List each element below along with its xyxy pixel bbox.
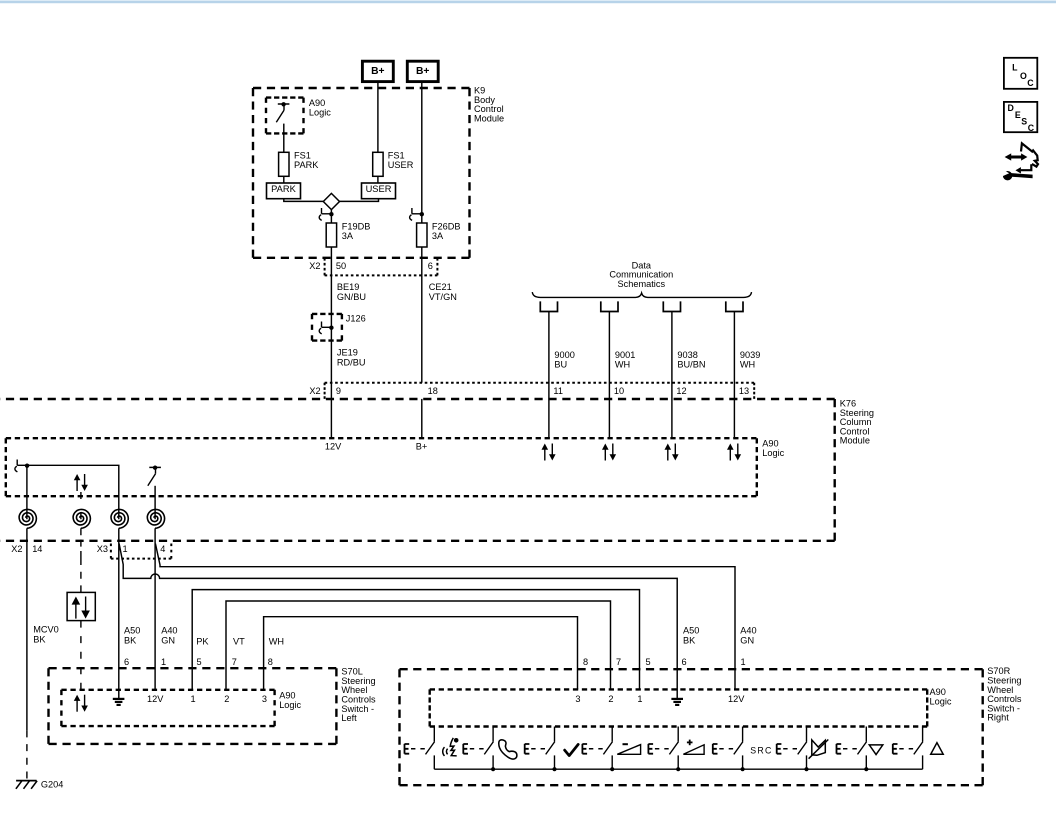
module S70R Steering Wheel Controls Switch - Right box bbox=[400, 669, 983, 785]
SIR coil (clockspring) on MCV0 wire bbox=[19, 509, 36, 528]
branch wire A40 GN to S70R 12V pin 1 bbox=[155, 544, 735, 690]
label S70L Steering Wheel Controls Switch - Left bbox=[341, 667, 376, 724]
wire PARK to merge diamond bbox=[284, 199, 324, 202]
svg-text:G204: G204 bbox=[41, 780, 63, 790]
wire F19DB to connector X2 pin 50 bbox=[330, 247, 332, 275]
SIR coil (clockspring) on A50 wire bbox=[111, 509, 128, 528]
svg-text:B+: B+ bbox=[416, 442, 428, 452]
svg-text:1: 1 bbox=[741, 657, 746, 667]
svg-text:JE19: JE19 bbox=[337, 347, 358, 357]
svg-text:Left: Left bbox=[341, 713, 357, 723]
bus junction bbox=[676, 767, 680, 771]
svg-text:10: 10 bbox=[614, 386, 624, 396]
bidirectional arrows in MCV0 box bbox=[72, 597, 90, 619]
label MCV0 BK bbox=[33, 625, 59, 645]
svg-text:S: S bbox=[1021, 117, 1027, 127]
svg-text:GN: GN bbox=[740, 636, 754, 646]
svg-text:6: 6 bbox=[428, 261, 433, 271]
svg-text:8: 8 bbox=[583, 657, 588, 667]
wire BE19 GN/BU X2-50 to J126 bbox=[330, 275, 332, 314]
volume up switch bbox=[648, 727, 678, 770]
SIR coil (clockspring) on link wire bbox=[73, 509, 90, 528]
svg-text:3A: 3A bbox=[432, 231, 444, 241]
connector X2 of K76 (pins 9, 18, 11, 10, 12, 13) bbox=[325, 383, 755, 399]
svg-text:PARK: PARK bbox=[271, 184, 296, 194]
power node B+ (right) bbox=[407, 61, 438, 81]
svg-text:C: C bbox=[1027, 78, 1034, 88]
wire USER to merge diamond bbox=[340, 199, 379, 202]
label A90 Logic (S70R) bbox=[930, 687, 952, 707]
svg-text:50: 50 bbox=[336, 261, 346, 271]
bidirectional data arrows (9000) bbox=[542, 444, 556, 461]
wire A40 GN X3-4 down to S70L 12V pin 1 bbox=[154, 541, 156, 690]
merge diamond (voltage select) bbox=[323, 193, 339, 209]
label A40 GN (left) bbox=[161, 626, 177, 646]
svg-text:BU/BN: BU/BN bbox=[677, 360, 705, 370]
fuse FS1 PARK bbox=[279, 152, 289, 176]
svg-text:A40: A40 bbox=[740, 626, 756, 636]
svg-text:12: 12 bbox=[676, 386, 686, 396]
bidirectional data arrows (9039) bbox=[727, 444, 741, 461]
ground symbol in S70L (pin 6) bbox=[113, 699, 125, 705]
label 9039 WH bbox=[740, 350, 760, 370]
SIR coil (clockspring) on A40 wire bbox=[147, 509, 164, 528]
module K76 Steering Column Control Module box bbox=[0, 399, 835, 541]
icon volume down (ramp with minus) bbox=[617, 744, 640, 754]
legend service procedure icon (arrows and wrench) bbox=[999, 143, 1038, 180]
wire VT S70L pin 7 to S70R pin 7 bbox=[226, 601, 611, 690]
svg-text:Logic: Logic bbox=[930, 697, 952, 707]
svg-text:B+: B+ bbox=[371, 66, 384, 77]
label A40 GN (right) bbox=[740, 626, 756, 646]
MCV0 serial data logic box bbox=[67, 592, 95, 620]
off-page connector to data schematics (9039) bbox=[726, 301, 743, 311]
svg-text:X2: X2 bbox=[11, 544, 22, 554]
bus junction bbox=[804, 767, 808, 771]
label FS1 PARK bbox=[294, 150, 319, 170]
svg-text:7: 7 bbox=[616, 657, 621, 667]
bus junction bbox=[864, 767, 868, 771]
wire WH S70L pin 8 to S70R pin 8 bbox=[264, 617, 578, 690]
switch A90 logic (park lamp control) bbox=[276, 102, 289, 122]
label CE21 VT/GN bbox=[429, 282, 457, 302]
wire X2-18 to A90 B+ bbox=[421, 399, 423, 438]
label FS1 USER bbox=[388, 150, 414, 170]
connector X3 box (pins 1, 4) bbox=[111, 544, 171, 559]
svg-text:A40: A40 bbox=[161, 626, 177, 636]
switch A90 (12V supply control) bbox=[148, 466, 161, 486]
ground symbol in S70R (pin 6) bbox=[671, 699, 683, 705]
label A50 BK (right) bbox=[683, 626, 699, 646]
svg-text:5: 5 bbox=[646, 657, 651, 667]
wire A40 below coil bbox=[154, 528, 156, 541]
wire CE21 VT/GN X2-6 to X2-18 bbox=[421, 275, 423, 382]
wire FS1 USER to USER output bbox=[377, 176, 379, 183]
terminal clip A90 ground source bbox=[15, 460, 29, 472]
svg-text:2: 2 bbox=[224, 694, 229, 704]
label Data Communication Schematics bbox=[609, 260, 673, 288]
power node B+ (left) bbox=[362, 61, 393, 81]
svg-text:PK: PK bbox=[196, 636, 209, 646]
off-page connector to data schematics (9001) bbox=[601, 301, 618, 311]
svg-text:1: 1 bbox=[161, 657, 166, 667]
wire switch to X3-4 bbox=[154, 486, 156, 519]
wire through J126 bbox=[330, 314, 332, 341]
svg-text:9000: 9000 bbox=[554, 350, 574, 360]
svg-text:5: 5 bbox=[197, 657, 202, 667]
legend DESC box bbox=[1004, 102, 1037, 133]
svg-text:11: 11 bbox=[553, 386, 563, 396]
svg-text:1: 1 bbox=[191, 694, 196, 704]
wire 9039 WH to K76 X2-13 bbox=[733, 312, 735, 439]
svg-text:F26DB: F26DB bbox=[432, 221, 461, 231]
svg-text:Schematics: Schematics bbox=[618, 279, 666, 289]
svg-text:VT/GN: VT/GN bbox=[429, 292, 457, 302]
wire FS1 PARK to PARK output bbox=[283, 176, 285, 183]
voice recognition switch bbox=[405, 727, 435, 770]
dashed link wire to MCV0 box bbox=[80, 558, 82, 592]
icon seek up (triangle up) bbox=[931, 743, 944, 755]
label A90 Logic (K9) bbox=[309, 98, 331, 118]
svg-text:FS1: FS1 bbox=[294, 150, 311, 160]
off-page connector to data schematics (9038) bbox=[663, 301, 680, 311]
wire JE19 RD/BU J126 to X2-9 bbox=[330, 341, 332, 399]
fuse F26DB 3A bbox=[417, 223, 427, 247]
svg-text:7: 7 bbox=[232, 657, 237, 667]
icon phone handset bbox=[499, 740, 517, 759]
svg-text:USER: USER bbox=[388, 160, 414, 170]
mute switch bbox=[777, 727, 807, 770]
fuse F19DB 3A bbox=[326, 223, 336, 247]
link wire below coil bbox=[80, 528, 82, 558]
bus junction bbox=[741, 767, 745, 771]
svg-text:A90: A90 bbox=[762, 438, 778, 448]
connector X2 of K9 (pins 50, 6) bbox=[325, 258, 438, 275]
svg-text:GN/BU: GN/BU bbox=[337, 292, 366, 302]
wire 9001 WH to K76 X2-10 bbox=[608, 312, 610, 439]
bus junction bbox=[491, 767, 495, 771]
wire X2-9 to A90 12V bbox=[330, 399, 332, 438]
source SRC switch bbox=[713, 727, 743, 770]
wire MCV0 BK from junction down (X2-14) bbox=[26, 465, 28, 519]
svg-text:14: 14 bbox=[32, 544, 42, 554]
svg-text:8: 8 bbox=[268, 657, 273, 667]
svg-text:BK: BK bbox=[124, 636, 137, 646]
svg-text:E: E bbox=[1015, 110, 1021, 120]
volume down switch bbox=[582, 727, 612, 770]
svg-text:13: 13 bbox=[739, 386, 749, 396]
icon mute (speaker crossed) bbox=[809, 740, 829, 759]
svg-text:RD/BU: RD/BU bbox=[337, 357, 366, 367]
legend LOC box bbox=[1004, 58, 1037, 89]
bidirectional arrows (serial data link) bbox=[74, 474, 88, 491]
bus junction bbox=[552, 767, 556, 771]
svg-text:A90: A90 bbox=[279, 691, 295, 701]
label BE19 GN/BU bbox=[337, 282, 366, 302]
svg-text:A90: A90 bbox=[930, 687, 946, 697]
svg-text:3A: 3A bbox=[342, 231, 354, 241]
svg-text:SRC: SRC bbox=[750, 746, 772, 756]
svg-text:WH: WH bbox=[615, 360, 630, 370]
branch wire A50 BK to S70R ground pin 6 (with crossover hop) bbox=[119, 544, 677, 699]
svg-text:D: D bbox=[1008, 103, 1014, 113]
accept/check switch bbox=[525, 727, 555, 770]
svg-text:A50: A50 bbox=[124, 626, 140, 636]
svg-text:X2: X2 bbox=[309, 261, 320, 271]
svg-text:A90: A90 bbox=[309, 98, 325, 108]
svg-text:3: 3 bbox=[575, 694, 580, 704]
label JE19 RD/BU bbox=[337, 347, 366, 367]
label K9 Body Control Module bbox=[474, 86, 504, 124]
svg-text:PARK: PARK bbox=[294, 160, 319, 170]
label A90 Logic (K76) bbox=[762, 438, 784, 458]
bus junction bbox=[610, 767, 614, 771]
wire F26DB to connector X2 pin 6 bbox=[421, 247, 423, 275]
svg-text:CE21: CE21 bbox=[429, 282, 452, 292]
A90 Logic box in S70R bbox=[430, 689, 928, 726]
svg-text:J126: J126 bbox=[346, 313, 366, 323]
svg-text:BU: BU bbox=[554, 360, 567, 370]
wire B+ (right box) down to F26DB bbox=[421, 82, 423, 223]
A90 Logic box in K9 bbox=[266, 98, 304, 134]
fuse FS1 USER bbox=[373, 152, 383, 176]
svg-text:9039: 9039 bbox=[740, 350, 760, 360]
svg-text:FS1: FS1 bbox=[388, 150, 405, 160]
svg-text:GN: GN bbox=[161, 636, 175, 646]
svg-text:12V: 12V bbox=[728, 694, 745, 704]
icon voice recognition (speaking head) bbox=[443, 738, 459, 756]
svg-text:X2: X2 bbox=[309, 386, 320, 396]
phone switch bbox=[463, 727, 493, 770]
svg-text:Right: Right bbox=[987, 713, 1009, 723]
switch bus wire in S70R bbox=[434, 768, 922, 770]
label K76 Steering Column Control Module bbox=[840, 399, 874, 446]
label S70R Steering Wheel Controls Switch - Right bbox=[987, 666, 1022, 723]
dashed link wire to MCV0 logic box bbox=[80, 492, 82, 519]
terminal clip at F26DB bbox=[410, 208, 424, 220]
chassis ground G204 bbox=[16, 781, 37, 789]
svg-text:MCV0: MCV0 bbox=[33, 625, 59, 635]
svg-text:X3: X3 bbox=[97, 544, 108, 554]
label 9038 BU/BN bbox=[677, 350, 705, 370]
svg-text:9: 9 bbox=[336, 386, 341, 396]
svg-text:L: L bbox=[1012, 62, 1018, 72]
wire A50 below coil bbox=[118, 528, 120, 541]
seek up switch bbox=[893, 727, 923, 770]
output terminal USER bbox=[362, 183, 396, 199]
label A90 Logic (S70L) bbox=[279, 691, 301, 711]
wire A50 BK X3-1 down to S70L ground pin 6 bbox=[118, 541, 120, 699]
svg-text:2: 2 bbox=[608, 694, 613, 704]
svg-text:F19DB: F19DB bbox=[342, 221, 371, 231]
label A50 BK (left) bbox=[124, 626, 140, 646]
module S70L Steering Wheel Controls Switch - Left box bbox=[49, 668, 337, 744]
wire ground junction to X3-1 branch bbox=[27, 465, 119, 519]
svg-text:C: C bbox=[1028, 123, 1035, 133]
svg-text:Logic: Logic bbox=[279, 700, 301, 710]
wire MCV0 below coil bbox=[26, 528, 28, 541]
svg-text:Module: Module bbox=[474, 113, 504, 123]
icon accept (checkmark) bbox=[565, 744, 579, 755]
seek down switch bbox=[837, 727, 867, 770]
svg-text:VT: VT bbox=[233, 636, 245, 646]
svg-text:6: 6 bbox=[124, 657, 129, 667]
terminal clip at F19DB bbox=[319, 208, 333, 220]
svg-text:USER: USER bbox=[366, 184, 392, 194]
svg-text:Module: Module bbox=[840, 436, 870, 446]
svg-text:18: 18 bbox=[428, 386, 438, 396]
svg-text:A50: A50 bbox=[683, 626, 699, 636]
bidirectional data arrows (9038) bbox=[665, 444, 679, 461]
svg-text:1: 1 bbox=[637, 694, 642, 704]
bidirectional arrows in S70L A90 bbox=[74, 695, 88, 712]
label F26DB 3A bbox=[432, 221, 461, 241]
A90 Logic box in S70L bbox=[61, 690, 274, 726]
wire X2-14 (MCV0 BK) down bbox=[26, 541, 28, 730]
svg-text:12V: 12V bbox=[325, 442, 342, 452]
off-page connector to data schematics (9000) bbox=[540, 301, 557, 311]
output terminal PARK bbox=[267, 183, 301, 199]
brace over data wires bbox=[532, 292, 751, 297]
svg-text:WH: WH bbox=[740, 360, 755, 370]
svg-text:9038: 9038 bbox=[677, 350, 697, 360]
label 9000 BU bbox=[554, 350, 574, 370]
terminal clip in J126 bbox=[319, 322, 333, 334]
wire A90 switch to fuse FS1 PARK bbox=[283, 124, 285, 153]
svg-text:6: 6 bbox=[682, 657, 687, 667]
inline connector J126 box bbox=[312, 314, 342, 341]
svg-text:Logic: Logic bbox=[309, 107, 331, 117]
svg-text:WH: WH bbox=[269, 636, 284, 646]
icon volume up (ramp with plus) bbox=[683, 740, 704, 755]
dashed link wire MCV0 box to S70L bbox=[80, 621, 82, 690]
label 9001 WH bbox=[615, 350, 635, 370]
svg-text:Logic: Logic bbox=[762, 448, 784, 458]
svg-text:9001: 9001 bbox=[615, 350, 635, 360]
wire diamond to junction bbox=[330, 210, 332, 223]
svg-text:1: 1 bbox=[123, 544, 128, 554]
wire B+ (left box) to fuse FS1 USER bbox=[377, 82, 379, 153]
svg-text:BE19: BE19 bbox=[337, 282, 359, 292]
svg-text:3: 3 bbox=[262, 694, 267, 704]
bidirectional data arrows (9001) bbox=[602, 444, 616, 461]
svg-text:BK: BK bbox=[683, 636, 696, 646]
wire 9038 BU/BN to K76 X2-12 bbox=[671, 312, 673, 439]
svg-text:12V: 12V bbox=[147, 694, 164, 704]
wire 9000 BU to K76 X2-11 bbox=[548, 312, 550, 439]
module K9 Body Control Module box bbox=[253, 88, 470, 258]
svg-text:B+: B+ bbox=[416, 66, 429, 77]
svg-text:BK: BK bbox=[33, 635, 46, 645]
wire PK S70L pin 5 to S70R pin 5 bbox=[192, 590, 639, 690]
svg-text:O: O bbox=[1020, 71, 1027, 81]
icon seek down (triangle down) bbox=[869, 745, 883, 755]
dashed wire MCV0 to G204 bbox=[26, 730, 28, 778]
svg-text:4: 4 bbox=[160, 544, 165, 554]
A90 Logic box in K76 bbox=[6, 438, 757, 496]
label F19DB 3A bbox=[342, 221, 371, 241]
